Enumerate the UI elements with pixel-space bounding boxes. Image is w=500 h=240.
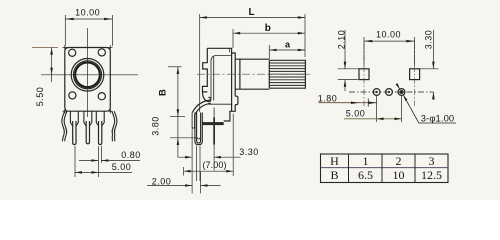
dim b arrows: [233, 32, 305, 35]
side view inner cover line: [211, 56, 231, 101]
side view shaft washer: [239, 58, 241, 89]
dim 0.80 line: [79, 160, 140, 162]
front view pin 1 base: [70, 111, 78, 126]
side view knurl lines: [269, 63, 305, 85]
front view mounting hole top-right: [98, 49, 105, 56]
svg-text:2.00: 2.00: [152, 177, 172, 187]
dim 3.30 right line: [432, 30, 434, 100]
side view body outline: [203, 48, 236, 121]
front view pin 2: [86, 121, 89, 144]
dim 2.10 ticks: [338, 69, 360, 80]
dim 1.80 tick: [367, 99, 369, 107]
side view pin 1: [195, 113, 202, 145]
front view bushing middle circle: [74, 61, 102, 89]
front view body corner ticks: [63, 45, 113, 113]
side view foot curl: [203, 92, 211, 102]
svg-text:2.10: 2.10: [336, 30, 346, 50]
dim 5.00 right line: [344, 118, 402, 120]
table outer box: [321, 154, 449, 183]
svg-text:12.5: 12.5: [421, 168, 442, 182]
svg-text:5.50: 5.50: [35, 87, 45, 107]
dim 7.00 tick left: [183, 167, 185, 176]
side view center line: [197, 73, 312, 75]
dim L extension lines: [200, 14, 305, 112]
side view bent strip curve: [192, 100, 210, 115]
front view body outline: [65, 48, 111, 112]
dim 3.30 line: [178, 156, 241, 158]
side view pin 1 tip arc: [197, 137, 200, 139]
dim 10.00 arrows: [65, 18, 112, 21]
dim 5.50 arrows: [50, 48, 53, 75]
side view shaft: [235, 59, 269, 89]
dim 2.00 arrows: [185, 184, 207, 187]
dim 5.00 extension line: [74, 146, 76, 177]
front view pin 2 base: [84, 111, 92, 126]
pcb right square pad: [410, 69, 420, 80]
dim L arrows: [200, 16, 305, 19]
dim a extension line: [268, 45, 270, 59]
pcb left square pad: [359, 69, 369, 80]
dim 1.80 arrows: [351, 101, 377, 104]
dim 0.80 extension lines: [98, 146, 101, 177]
front view bushing inner circle: [75, 63, 100, 88]
svg-text:3.80: 3.80: [151, 116, 161, 136]
dim 1.80 line: [319, 102, 377, 104]
pcb pin hole centers: [376, 90, 404, 94]
svg-text:0.80: 0.80: [121, 150, 141, 160]
side view inner bottom edge: [209, 103, 232, 105]
front view left bent leg: [62, 111, 67, 141]
pcb horizontal center line: [349, 91, 433, 93]
dim 10.00 right line: [364, 40, 415, 42]
svg-text:10: 10: [393, 168, 405, 182]
dim 2.10 line: [344, 30, 346, 91]
dim 2.00 line: [147, 185, 221, 187]
dim 3.30 right tick: [420, 68, 439, 70]
svg-text:B: B: [157, 89, 168, 96]
dim 10.00 extension lines: [65, 15, 112, 46]
pcb pin hole 1: [373, 89, 380, 96]
dim 10.00 line: [65, 18, 112, 20]
leader line to pin hole 3: [396, 84, 456, 123]
front view vertical center line: [87, 28, 89, 117]
svg-text:3-φ1.00: 3-φ1.00: [421, 113, 455, 123]
dim b line: [233, 32, 305, 34]
dim B arrows: [177, 67, 180, 145]
front view pin 3 base: [96, 111, 104, 126]
dim 3.30 arrows: [185, 156, 221, 159]
dim 3.30 right arrows: [432, 62, 435, 100]
svg-text:a: a: [285, 39, 291, 49]
svg-text:3: 3: [429, 154, 435, 168]
dim B tick bottom: [170, 116, 185, 118]
svg-text:5.00: 5.00: [112, 162, 132, 172]
dim 7.00 arrows: [184, 170, 234, 173]
side view top right notch: [229, 48, 231, 52]
front view mounting hole bottom-left: [69, 92, 76, 99]
dim 5.50 tick top: [32, 47, 58, 49]
front view pin 3: [99, 121, 102, 145]
dim 5.00 right arrows: [377, 118, 402, 121]
svg-text:1: 1: [363, 154, 369, 168]
front view mounting hole top-left: [69, 49, 76, 56]
svg-text:1.80: 1.80: [318, 94, 338, 104]
dim 3.80 bottom line: [170, 137, 196, 139]
front view pin 1: [73, 121, 76, 145]
dim a line: [269, 49, 305, 51]
pcb pin hole 3: [398, 89, 405, 96]
svg-text:2: 2: [396, 154, 402, 168]
svg-text:L: L: [248, 7, 254, 18]
svg-text:6.5: 6.5: [358, 168, 373, 182]
svg-text:B: B: [330, 168, 338, 182]
dim L line: [200, 17, 305, 19]
side view bent strip: [192, 113, 195, 128]
front view bushing outer circle: [71, 59, 104, 92]
dim 7.00 extension right: [232, 114, 234, 176]
dim B tick top: [168, 66, 182, 68]
dim 5.00 arrows: [75, 171, 98, 174]
side view pin 2: [213, 108, 215, 118]
table column lines: [349, 154, 416, 183]
svg-text:3.30: 3.30: [424, 30, 434, 50]
pcb square center lines: [364, 43, 415, 106]
svg-text:3.30: 3.30: [239, 147, 259, 157]
dim a arrows: [269, 49, 305, 52]
front view horizontal center line: [41, 74, 138, 76]
svg-text:5.00: 5.00: [346, 108, 366, 118]
dim 5.00 right extensions: [377, 96, 402, 122]
dim 5.50 line: [51, 48, 53, 83]
side view stand base bar: [203, 122, 224, 125]
side view bump on plate: [235, 96, 238, 104]
side view knurled shaft outline: [269, 60, 305, 88]
dim 2.10 arrows: [344, 62, 347, 87]
svg-text:10.00: 10.00: [376, 30, 401, 40]
dim 10.00 right arrows: [364, 40, 415, 43]
dim 10.00 right extension: [364, 37, 415, 66]
front view mounting hole bottom-right: [98, 93, 105, 100]
dim 5.00 line: [75, 171, 132, 173]
svg-text:b: b: [265, 23, 271, 34]
table middle line: [321, 167, 449, 169]
svg-text:10.00: 10.00: [75, 8, 100, 18]
pcb pin hole 2: [386, 89, 393, 96]
svg-text:H: H: [330, 154, 339, 168]
dim 0.80 arrows: [91, 159, 108, 162]
front view right bent leg: [112, 111, 117, 141]
svg-text:(7.00): (7.00): [202, 160, 226, 170]
dim b extension line: [232, 29, 234, 48]
pin1 edge extension lines: [192, 129, 214, 194]
dim 7.00 line: [184, 170, 234, 172]
dim B and 3.80 vertical line: [177, 67, 179, 157]
